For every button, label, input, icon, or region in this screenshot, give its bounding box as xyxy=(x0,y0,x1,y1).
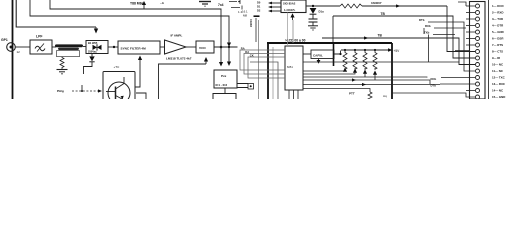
resistor R6 xyxy=(343,50,347,69)
wire corner to x155 down xyxy=(159,64,207,99)
wire bend into pin1 xyxy=(458,2,466,6)
pulse shaper box P xyxy=(214,70,237,88)
svg-text:PA/g: PA/g xyxy=(57,89,64,93)
svg-text:10— NC: 10— NC xyxy=(492,63,504,67)
wire hook R1 xyxy=(303,70,345,72)
svg-text:Aq: Aq xyxy=(383,94,387,98)
svg-text:8251: 8251 xyxy=(287,65,293,69)
svg-text:LPF: LPF xyxy=(36,35,42,39)
wire stub arrow up at x144 xyxy=(143,5,145,9)
wire y80 hook R4 with arrow xyxy=(303,75,475,85)
svg-text:LM318 TL072 4k7: LM318 TL072 4k7 xyxy=(166,57,192,61)
pin 11 xyxy=(476,69,480,73)
capacitor C1 xyxy=(309,18,318,20)
pin 13 xyxy=(476,82,480,86)
wire RXb step xyxy=(424,28,466,34)
wire arrowhead down at x96 xyxy=(95,27,97,30)
svg-text:IC1 - IC2: IC1 - IC2 xyxy=(216,83,228,87)
pin 4 xyxy=(476,24,480,28)
latch box CAPSL xyxy=(311,50,334,59)
wire TB2 net xyxy=(322,38,475,65)
wire gray long vertical x258 xyxy=(258,20,260,99)
wire gray U6 to bus xyxy=(292,20,294,43)
resistor R7 xyxy=(353,50,357,69)
wire DA loop xyxy=(244,54,285,75)
diac symbol inside xyxy=(93,45,98,50)
wire amp to VCO xyxy=(186,46,196,48)
pin 14 xyxy=(476,89,480,93)
svg-text:13— RXC: 13— RXC xyxy=(492,82,506,86)
svg-text:TB: TB xyxy=(381,12,386,16)
wire arrow on TB2 xyxy=(364,36,369,39)
ground under R2 xyxy=(57,69,68,71)
wire bracket A x50 to x221 xyxy=(50,0,221,63)
svg-text:TB: TB xyxy=(378,34,383,38)
svg-text:6— DSR: 6— DSR xyxy=(492,37,504,41)
wire CAPSL to rail xyxy=(334,51,341,55)
svg-text:PTT: PTT xyxy=(349,92,355,96)
wire y77 hook R3 and step to DCb xyxy=(303,74,475,78)
IC U6 oscillator box xyxy=(281,0,306,13)
pin 3 xyxy=(476,17,480,21)
svg-text:DTb: DTb xyxy=(431,84,437,88)
surge suppressor box xyxy=(86,41,108,54)
pin 1 xyxy=(476,4,480,8)
svg-text:C1603: C1603 xyxy=(249,19,253,27)
svg-text:15— GND: 15— GND xyxy=(492,95,505,99)
bus thick horizontal xyxy=(267,42,392,44)
wire U6 output y6 xyxy=(306,5,340,7)
svg-text:11— NC: 11— NC xyxy=(492,69,504,73)
wire feed drop right xyxy=(447,6,475,52)
wire arrowhead down at x229 xyxy=(227,43,231,47)
box lower shaper xyxy=(213,94,236,100)
svg-text:D1a: D1a xyxy=(319,10,325,14)
diode D1 xyxy=(310,8,317,14)
op-amp U3 xyxy=(165,40,187,54)
terminal J1 input jack xyxy=(7,43,16,52)
component CB square xyxy=(248,84,254,90)
node dots on rail xyxy=(344,49,346,51)
bus thick stub down at x333 xyxy=(333,43,335,66)
wire below box xyxy=(224,88,226,94)
wire arrow up into U6 bottom xyxy=(292,17,294,20)
pin 9 xyxy=(476,56,480,60)
connector pins and stubs xyxy=(466,4,480,99)
capacitor C7 tiny marks xyxy=(229,0,240,4)
wire arrows into U6 left xyxy=(272,2,281,4)
wire main thick vertical left rail xyxy=(12,0,14,99)
svg-text:1— DCD: 1— DCD xyxy=(492,4,504,8)
wire stubs below U5 xyxy=(289,90,298,99)
rail +5V xyxy=(341,49,388,51)
svg-text:RXb: RXb xyxy=(425,24,431,28)
pin 5 xyxy=(476,30,480,34)
transistor Q1 box xyxy=(103,72,135,101)
wire arrowhead down at x221 xyxy=(219,62,223,67)
wire RA loop xyxy=(240,50,285,70)
svg-text:8— CTS: 8— CTS xyxy=(492,50,503,54)
wire diode to cap xyxy=(312,15,314,19)
svg-text:7— RTS: 7— RTS xyxy=(492,43,503,47)
svg-text:4— DTR: 4— DTR xyxy=(492,24,504,28)
wire x140 down to transistor box xyxy=(135,64,140,87)
pin 6 xyxy=(476,37,480,41)
node junction at filter input xyxy=(113,46,115,48)
svg-text:Pxx: Pxx xyxy=(221,74,227,78)
svg-text:DCb: DCb xyxy=(431,77,437,81)
oscillator U4 box xyxy=(196,41,214,53)
wire CK loop xyxy=(248,57,285,78)
crystal X1 vertical lead xyxy=(255,18,257,42)
bus thick vertical left xyxy=(267,43,269,99)
svg-text:3— TXD: 3— TXD xyxy=(492,17,503,21)
svg-text:T88 M8a: T88 M8a xyxy=(130,2,143,6)
wire U5 to CAPSL box xyxy=(303,53,311,55)
pin 7 xyxy=(476,43,480,47)
connector pin labels xyxy=(492,4,506,99)
wire gray x287 down xyxy=(287,13,289,47)
filter LPF box xyxy=(30,40,52,54)
svg-text:GP1: GP1 xyxy=(1,38,8,42)
node junction at diode xyxy=(312,5,314,7)
svg-text:1-CD47L: 1-CD47L xyxy=(284,8,296,12)
resistor R9 xyxy=(373,50,377,69)
svg-text:2— RXD: 2— RXD xyxy=(492,11,503,15)
wire arrow up at x206 xyxy=(205,61,207,64)
svg-text:>1CD 00 a 00: >1CD 00 a 00 xyxy=(285,38,306,42)
svg-text:SIO 85A2: SIO 85A2 xyxy=(283,2,296,6)
svg-text:SYNC FILTER 4M: SYNC FILTER 4M xyxy=(121,46,147,50)
svg-text:D2: D2 xyxy=(257,8,261,12)
connector CN1 body xyxy=(470,2,486,100)
svg-text:7x4: 7x4 xyxy=(218,3,224,7)
resistor R5 PTT xyxy=(368,92,372,100)
svg-text:12: 12 xyxy=(17,50,21,54)
svg-text:250Vac: 250Vac xyxy=(88,50,97,54)
inductor L1 zigzag on feed xyxy=(340,4,362,8)
svg-text:B1 W05: B1 W05 xyxy=(88,41,98,45)
fuse F1 bar xyxy=(55,44,83,47)
wire TB net xyxy=(333,16,475,58)
bus thick vertical right xyxy=(391,43,393,99)
wire DTb to pin xyxy=(428,22,475,71)
ground under C1 xyxy=(308,25,318,27)
wire y88 to PTT xyxy=(303,89,370,93)
wire bracket to surge arrow xyxy=(16,0,96,27)
wire drop x229 into shaper xyxy=(228,47,230,62)
svg-text:DTb: DTb xyxy=(419,18,425,22)
wire dashed drive line xyxy=(72,90,98,92)
svg-text:CAP5L: CAP5L xyxy=(313,53,323,57)
svg-text:12— TXC: 12— TXC xyxy=(492,76,506,80)
wire diode down corner xyxy=(84,62,93,74)
pin 12 xyxy=(476,76,480,80)
wire arrow up into filter bottom xyxy=(139,59,141,64)
wire fuse to surge box xyxy=(83,46,86,48)
transistor Q1 xyxy=(108,82,130,104)
wire jack to LPF xyxy=(15,46,30,48)
wire step bottom xyxy=(136,93,146,99)
wire bracket B x30 to x229 xyxy=(30,0,229,43)
ground symbol top middle xyxy=(199,1,211,3)
svg-text:+5V: +5V xyxy=(394,49,401,53)
svg-text:14— NC: 14— NC xyxy=(492,89,504,93)
svg-text:1N4007: 1N4007 xyxy=(371,1,382,5)
pin 8 xyxy=(476,50,480,54)
node junction on dashed line xyxy=(81,90,83,92)
pin 2 xyxy=(476,11,480,15)
wire stub below CAPSL xyxy=(318,59,320,61)
wire TXb step xyxy=(429,35,471,63)
wire y84 with arrow xyxy=(303,84,440,86)
connector separator line xyxy=(488,0,490,99)
wire TB drop xyxy=(332,16,334,42)
wire LPF to fuse xyxy=(52,46,56,48)
svg-text:M8: M8 xyxy=(243,14,247,18)
fuse F2 bar xyxy=(58,48,79,50)
pin 15 xyxy=(476,95,480,99)
wire hook R2 xyxy=(303,73,355,75)
svg-text:VCO: VCO xyxy=(199,46,206,50)
diode D2 xyxy=(91,54,93,57)
svg-text:D1: D1 xyxy=(257,4,261,8)
svg-text:TXb: TXb xyxy=(424,31,430,35)
svg-text:9— RI: 9— RI xyxy=(492,56,500,60)
wire gray vertical x273 xyxy=(272,47,274,99)
svg-text:5— GND: 5— GND xyxy=(492,30,504,34)
wire filter to amp xyxy=(160,46,164,48)
pin 10 xyxy=(476,63,480,67)
wire VCO output xyxy=(214,46,238,48)
svg-text:IF AMPL: IF AMPL xyxy=(171,34,183,38)
wire surge to filter xyxy=(108,46,118,48)
svg-text:+TC: +TC xyxy=(114,65,121,69)
wire y93 bottom right xyxy=(392,93,475,97)
wire arrow on feed xyxy=(396,4,401,7)
resistor R8 xyxy=(363,50,367,69)
wire U5 right y62 long xyxy=(303,61,459,63)
wire box to CB square xyxy=(237,84,248,88)
svg-text:D0: D0 xyxy=(257,0,261,4)
filter U2 box xyxy=(118,41,160,54)
IC U5 main box xyxy=(285,46,303,90)
resistor R2 vertical xyxy=(60,57,64,70)
node junction on signal wire xyxy=(220,46,223,49)
wire corner x278 xyxy=(250,62,278,99)
fuse holder box xyxy=(57,51,80,57)
